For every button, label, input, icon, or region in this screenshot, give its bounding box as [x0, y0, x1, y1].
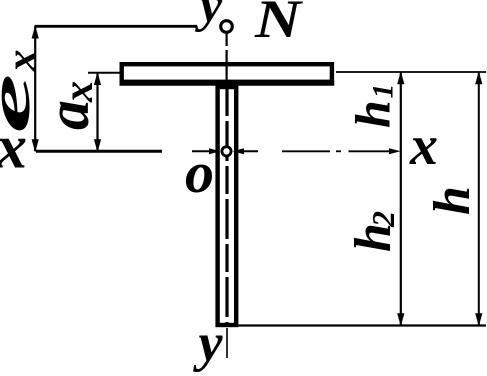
x axis long dash	[282, 150, 330, 152]
arrow pointing left at node	[233, 148, 245, 154]
flange bottom edge (thicker)	[120, 81, 335, 86]
arrow h2 bottom	[397, 313, 404, 326]
vertical centerline y-y (web part)	[225, 88, 228, 324]
web plate of T-section	[218, 87, 237, 325]
node circle at centroid o	[222, 147, 231, 156]
vertical centerline y-y (through flange)	[226, 62, 228, 86]
label h1 (rotated)	[345, 84, 401, 129]
top dimension line from y axis to e_x line	[35, 25, 198, 28]
svg-text:a: a	[35, 100, 101, 130]
top extension line from flange to h line	[336, 71, 486, 73]
svg-text:N: N	[254, 0, 304, 49]
arrow x axis pointing right at h1 line	[389, 148, 401, 154]
vertical centerline y-y (lower tail)	[226, 328, 228, 358]
x axis dash left of node	[192, 150, 211, 152]
x axis dot	[336, 150, 341, 152]
arrow h1 top	[397, 71, 404, 84]
vertical centerline y-y (upper part)	[226, 33, 228, 62]
e_x dimension line	[34, 26, 36, 151]
arrow e_x bottom	[32, 139, 39, 152]
arrow pointing right at node	[209, 148, 221, 154]
arrow h top	[475, 71, 482, 84]
svg-text:x: x	[0, 50, 46, 73]
label e_x (rotated)	[0, 50, 46, 134]
h dimension line	[478, 72, 480, 326]
arrow h bottom	[475, 313, 482, 326]
arrow a_x top	[94, 72, 101, 85]
svg-text:1: 1	[367, 84, 400, 99]
svg-text:y: y	[195, 0, 223, 33]
a_x extension line to flange	[88, 72, 122, 74]
x axis dash right of node	[241, 150, 258, 152]
x axis dash to h1 line	[349, 150, 392, 152]
x axis left solid segment	[36, 150, 162, 153]
svg-text:h: h	[424, 186, 481, 215]
arrow a_x bottom	[94, 139, 101, 152]
svg-text:x: x	[56, 81, 102, 103]
circle marking load point N	[221, 21, 233, 33]
svg-text:2: 2	[365, 211, 401, 228]
a_x dimension line	[96, 73, 98, 152]
label a_x (rotated)	[35, 81, 102, 130]
h1 h2 dimension line	[400, 72, 402, 326]
svg-text:o: o	[185, 140, 214, 205]
svg-text:x: x	[409, 115, 438, 177]
svg-text:x: x	[0, 114, 27, 182]
svg-text:h: h	[345, 100, 401, 128]
arrow e_x top	[32, 26, 39, 39]
label h (rotated)	[424, 186, 481, 215]
label h2 (rotated)	[345, 211, 402, 252]
flange plate of T-section	[122, 64, 332, 82]
bottom extension line from web to h line	[236, 324, 486, 326]
